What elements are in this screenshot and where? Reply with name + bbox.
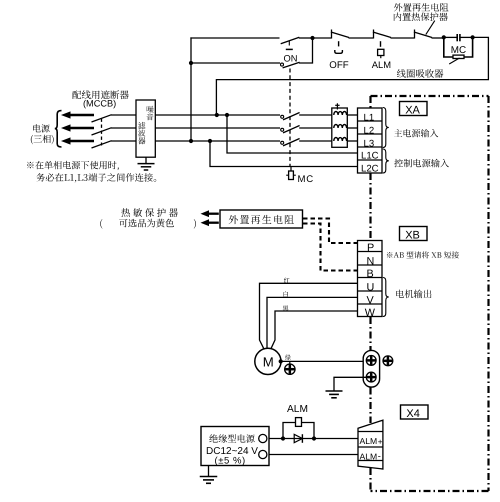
inductor winding L3 xyxy=(334,137,347,141)
wire L2C tap xyxy=(210,141,358,167)
svg-text:V: V xyxy=(367,295,375,307)
breaker MCCB pole 1 xyxy=(92,115,112,122)
node snubber right xyxy=(471,35,475,39)
wire pointer from thermal-protector label xyxy=(426,21,435,35)
label note1 single-phase xyxy=(27,161,119,170)
svg-text:ALM: ALM xyxy=(360,436,378,446)
pushbutton OFF (NC, momentary) xyxy=(331,30,333,39)
terminal earth screw bottom xyxy=(366,372,376,382)
arrow phase S xyxy=(61,124,71,131)
terminal block XA xyxy=(358,108,383,173)
servo amplifier outline dash-dot top xyxy=(371,95,489,97)
connector X4 label box xyxy=(401,405,429,419)
wire earth to chassis ground xyxy=(334,377,367,391)
connector XB label box xyxy=(400,227,428,241)
wire regen to P dashed xyxy=(303,219,358,244)
resistor external-regeneration box xyxy=(220,210,303,228)
wire ALM to thermal contact xyxy=(391,37,415,39)
label noise (vertical col right) xyxy=(147,106,154,113)
svg-text:ALM: ALM xyxy=(372,59,391,70)
inductor reactor box xyxy=(332,108,348,147)
motor M circle xyxy=(255,348,281,374)
label optional-yellow xyxy=(100,219,102,229)
brace motor-output terminals xyxy=(383,278,389,317)
label white xyxy=(284,291,289,297)
svg-text:X4: X4 xyxy=(406,408,419,420)
ground noise-filter xyxy=(145,157,147,163)
svg-text:OFF: OFF xyxy=(329,60,348,71)
svg-text:L2C: L2C xyxy=(361,164,379,175)
breaker MCCB linkage dashed xyxy=(101,119,103,146)
wire control-line left vertical (node from L3) xyxy=(190,37,192,141)
label motor-output xyxy=(396,290,431,299)
label power-source xyxy=(33,124,50,132)
svg-text:L1: L1 xyxy=(364,112,375,123)
power supply insulated box xyxy=(201,427,269,466)
node junction ON/aux xyxy=(310,36,314,40)
svg-text:MC: MC xyxy=(298,174,315,185)
operator MC solenoid xyxy=(290,167,292,172)
arrow phase R xyxy=(61,111,71,118)
capacitor surge-absorber xyxy=(444,36,457,38)
contact ALM (alarm relay, NC) xyxy=(373,30,375,39)
svg-text:ALM: ALM xyxy=(360,452,378,462)
node junction aux branch tap xyxy=(189,61,193,65)
label MCCB chinese xyxy=(72,90,128,99)
wire control top line to ON xyxy=(190,37,279,39)
contact MC main pole L3 xyxy=(281,141,284,144)
ground psu xyxy=(208,466,210,477)
wire pole2 to filter xyxy=(111,127,137,129)
wire OFF to ALM xyxy=(349,37,374,39)
node ALM branch right xyxy=(312,436,316,440)
wire OFF linkage dash xyxy=(338,41,340,46)
label external-regeneration-resistor xyxy=(394,3,449,11)
brace control-power terminals xyxy=(383,149,389,173)
node snubber left xyxy=(442,35,446,39)
terminal earth screw top xyxy=(366,356,376,366)
wire L1 filter to MC contact xyxy=(155,114,280,116)
terminal block X4 xyxy=(358,420,383,469)
wire motor to servo earth xyxy=(281,360,366,362)
brace power-source xyxy=(55,111,62,147)
noise filter box xyxy=(136,100,155,157)
label three-phase xyxy=(31,135,54,144)
inductor winding L1 xyxy=(334,111,347,115)
label insulated-power-supply xyxy=(209,434,254,443)
label red xyxy=(284,278,290,283)
label green xyxy=(285,355,291,361)
svg-text:(±5 %): (±5 %) xyxy=(215,455,246,466)
svg-text:L2: L2 xyxy=(364,125,375,136)
wire ALM- line xyxy=(267,454,358,456)
wire W black xyxy=(271,311,358,350)
servo amplifier outline dash-dot bottom xyxy=(371,490,489,492)
wire L2 filter to MC contact xyxy=(155,127,280,129)
wire thermal to snubber node xyxy=(432,37,445,39)
svg-text:ON: ON xyxy=(284,53,298,63)
wire pole3 to filter xyxy=(111,140,137,142)
svg-text:-: - xyxy=(378,451,381,461)
terminal block earth stadium xyxy=(363,350,379,387)
wire L3 reactor to XA xyxy=(347,140,358,142)
contact MC main pole L1 xyxy=(281,115,284,118)
wire L3 to reactor xyxy=(299,140,333,142)
connector XA label box xyxy=(400,102,428,116)
svg-text:ALM: ALM xyxy=(287,404,308,415)
wire L1 reactor to XA xyxy=(347,114,358,116)
arrow thermistor lead 1 xyxy=(201,210,210,217)
label coil-absorber xyxy=(397,69,444,78)
wire L2 reactor to XA xyxy=(347,127,358,129)
contact built-in thermal protector (NC) xyxy=(414,30,416,39)
node junction control-return on L1 xyxy=(215,113,219,117)
svg-text:W: W xyxy=(365,307,376,319)
svg-text:M: M xyxy=(263,354,274,369)
wire pointer from coil-absorber label xyxy=(449,58,459,64)
inductor winding L2 xyxy=(334,124,347,128)
svg-text:N: N xyxy=(367,256,375,268)
svg-text:MC: MC xyxy=(451,45,466,56)
pushbutton ON (NO, momentary) xyxy=(281,37,300,44)
operator ALM relay linkage xyxy=(380,41,382,47)
label filter (vertical col left) xyxy=(138,122,145,129)
wire pole1 to filter xyxy=(111,114,137,116)
node L1C tap on L1 xyxy=(225,113,229,117)
label note AB-type short XB xyxy=(387,251,459,258)
node L2C tap on L3 xyxy=(208,139,212,143)
svg-text:L3: L3 xyxy=(364,138,375,149)
label note2 connect L1 L3 xyxy=(36,173,156,182)
contact MC main pole L2 xyxy=(281,128,284,131)
label external-regeneration-resistor box xyxy=(229,215,294,224)
wire L3 filter to MC contact xyxy=(155,140,280,142)
svg-text:U: U xyxy=(367,281,375,293)
contact MC auxiliary (self-hold) xyxy=(281,63,284,66)
wire reactor chassis tap xyxy=(336,103,338,109)
wire L1C tap xyxy=(227,115,358,153)
svg-text:+: + xyxy=(378,437,383,446)
wire ALM+ line xyxy=(267,438,358,440)
wire L1 to reactor xyxy=(299,114,333,116)
label main-power-input xyxy=(394,129,438,137)
wire aux branch left xyxy=(190,62,280,64)
terminal psu - xyxy=(259,450,267,458)
servo amplifier outline dash-dot left segments xyxy=(369,96,371,108)
label built-in-thermal-protector xyxy=(394,12,448,21)
diode ALM xyxy=(294,434,302,442)
coil MC contactor xyxy=(444,37,453,57)
node junction L3 tap xyxy=(189,139,193,143)
label black xyxy=(283,306,289,312)
node motor frame xyxy=(279,359,283,363)
brace main-power terminals xyxy=(383,108,389,148)
wire junction to OFF xyxy=(312,37,332,39)
wire control return xyxy=(216,37,488,115)
terminal psu + xyxy=(259,434,267,442)
wire U red xyxy=(260,283,358,349)
svg-text:XB: XB xyxy=(405,230,420,242)
arrow thermistor lead 2 xyxy=(201,219,210,226)
label control-power-input xyxy=(394,159,449,168)
svg-text:(MCCB): (MCCB) xyxy=(83,99,116,109)
terminal block XB xyxy=(358,241,383,317)
label thermistor-protector xyxy=(121,208,177,217)
wire aux branch right + up xyxy=(299,38,313,64)
breaker MCCB pole 2 xyxy=(92,128,112,135)
wire regen to B dashed xyxy=(303,224,358,271)
wire L2 to reactor xyxy=(299,127,333,129)
wire ON right to junction xyxy=(299,37,313,39)
terminal motor protective-earth screw xyxy=(289,361,291,364)
arrow phase T xyxy=(61,137,71,144)
svg-text:B: B xyxy=(367,268,374,280)
coil ALM relay branch xyxy=(283,423,296,439)
node ALM branch left xyxy=(281,436,285,440)
svg-text:P: P xyxy=(367,242,374,254)
svg-text:XA: XA xyxy=(405,105,420,117)
terminal external earth screw xyxy=(383,356,393,366)
svg-text:L1C: L1C xyxy=(361,151,379,162)
ground chassis xyxy=(326,390,343,392)
breaker MCCB pole 3 xyxy=(92,141,112,148)
wire MC linkage dashed xyxy=(289,69,291,167)
servo amplifier outline dash-dot right xyxy=(487,96,489,491)
wire V white xyxy=(267,297,358,348)
